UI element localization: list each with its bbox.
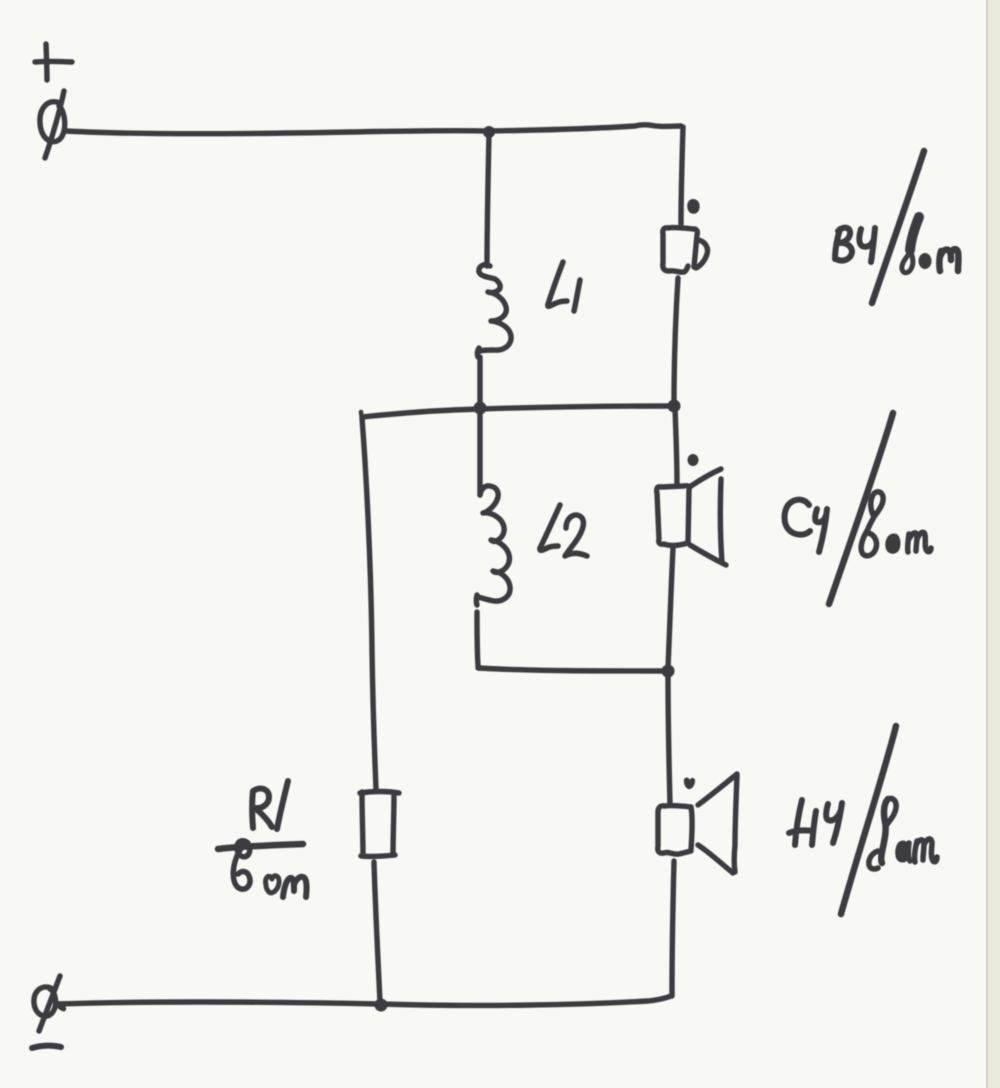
letter CH (859, 228, 875, 262)
letter m R1 (283, 877, 307, 897)
letter o NCH (897, 842, 909, 861)
wire tweeter top (681, 127, 683, 224)
wire tweeter bottom (674, 278, 678, 404)
inductor L1 (479, 265, 511, 351)
label R1 fraction (218, 781, 307, 897)
speaker NCH woofer horn (698, 774, 737, 805)
wire mid left corner tick (361, 412, 363, 419)
fraction bar (218, 844, 303, 849)
phi terminal top (40, 91, 65, 158)
wire woofer bottom (672, 861, 674, 996)
junction L2 bottom-right (662, 665, 675, 678)
digit 8 R1 (233, 841, 250, 889)
minus terminal (32, 1046, 61, 1048)
wire L2 bottom horizontal (478, 668, 666, 671)
letter o SCH (887, 535, 899, 552)
letter m SCH (908, 532, 931, 552)
inductor L2 end tail (474, 595, 480, 605)
plus terminal (35, 44, 72, 80)
speaker BCH tweeter body (663, 228, 693, 273)
resistor R1 right edge (393, 794, 394, 855)
junction bottom (375, 999, 388, 1012)
dot woofer terminal (684, 778, 695, 790)
label L2 (540, 505, 587, 556)
letter ch (826, 803, 842, 843)
inductor L2 (478, 486, 510, 601)
speaker BCH tweeter horn (696, 240, 708, 268)
digit 8 NCH (881, 799, 888, 863)
digit 8 SCH (861, 492, 883, 556)
letter R (252, 789, 272, 828)
scan edge strip right (987, 0, 1000, 1088)
speaker NCH woofer right edge (691, 807, 692, 850)
wire mid speaker bottom (668, 548, 673, 668)
letter o R1 (266, 876, 280, 893)
slash SCH (829, 413, 893, 604)
wire L1 top (487, 134, 489, 266)
wire resistor bottom (374, 862, 380, 1002)
label SCH (785, 413, 932, 604)
phi terminal bottom (34, 976, 60, 1031)
digit 1 (277, 781, 288, 829)
dot tweeter terminal (687, 199, 699, 214)
digit 8 BCH (910, 217, 919, 250)
label L1 (548, 262, 580, 311)
letter ch (815, 509, 827, 552)
letter V (B) (835, 228, 852, 261)
wire mid speaker top (675, 408, 677, 484)
wire L1 bottom (477, 357, 482, 406)
wire L2 top (477, 410, 482, 495)
wire mid horizontal right part (480, 406, 674, 409)
label NCH (789, 726, 937, 914)
speaker BCH tweeter right edge (694, 229, 697, 267)
letter m NCH (915, 839, 937, 862)
slash NCH (841, 726, 896, 914)
speaker SCH mid body (657, 486, 690, 546)
wire left branch (362, 418, 376, 789)
letter m BCH (939, 249, 958, 271)
speaker SCH mid horn (691, 469, 721, 486)
wire bottom start tick (57, 1004, 64, 1009)
junction top (483, 126, 495, 138)
junction mid-left (474, 402, 487, 415)
resistor R1 left edge (362, 792, 363, 856)
speaker NCH woofer body (658, 806, 691, 855)
resistor R1 top edge (360, 792, 399, 794)
slash BCH (872, 151, 924, 303)
letter N (H) (789, 800, 816, 845)
wire top (66, 125, 681, 134)
label BCH (835, 151, 958, 303)
wire L2 bottom stub (477, 612, 478, 666)
wire bottom (57, 996, 671, 1005)
letter S (C) (785, 500, 811, 535)
inductor L1 end tail (477, 348, 479, 357)
dot mid terminal (688, 454, 699, 466)
letter o BCH (919, 253, 932, 269)
resistor R1 bottom edge (361, 855, 395, 856)
wire mid horizontal left part (362, 409, 480, 417)
junction mid-right (668, 400, 681, 413)
wire woofer top (668, 674, 670, 804)
